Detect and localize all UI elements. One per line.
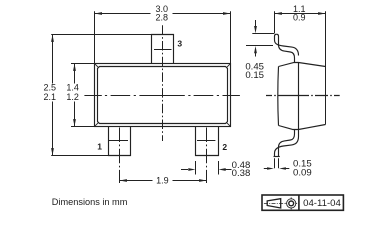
svg-text:1: 1 (97, 142, 102, 152)
svg-text:1.9: 1.9 (156, 176, 169, 186)
svg-text:04-11-04: 04-11-04 (303, 198, 341, 209)
svg-text:0.38: 0.38 (232, 168, 251, 179)
svg-text:Dimensions in mm: Dimensions in mm (52, 197, 128, 207)
svg-text:1.2: 1.2 (66, 92, 79, 102)
svg-text:0.9: 0.9 (293, 13, 306, 23)
svg-text:3: 3 (177, 38, 182, 48)
svg-text:2.8: 2.8 (155, 12, 168, 22)
svg-text:0.15: 0.15 (245, 70, 264, 81)
svg-text:2.1: 2.1 (43, 92, 56, 102)
svg-text:2: 2 (222, 142, 227, 152)
svg-text:0.09: 0.09 (293, 167, 312, 178)
